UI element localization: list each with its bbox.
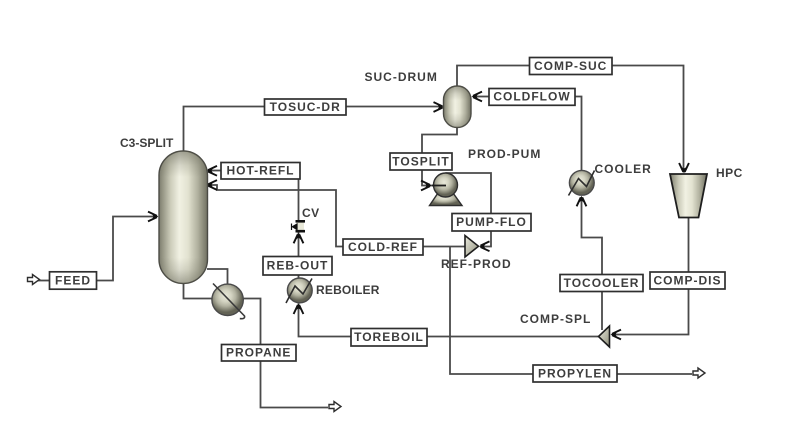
wire HOT-REFL label to column <box>211 170 221 172</box>
wire column side draw to heater top <box>207 269 228 284</box>
svg-text:COLD-REF: COLD-REF <box>348 240 418 254</box>
reboiler zigzag <box>286 279 312 304</box>
stream label box COMP-SUC <box>530 58 613 75</box>
wire reboiler inlet from TOREBOIL <box>299 304 599 337</box>
stream label box COLD-REF <box>343 239 423 255</box>
svg-text:CV: CV <box>302 206 320 220</box>
compressor HPC <box>670 174 707 218</box>
cooler COOLER <box>569 170 594 195</box>
valve CV body <box>297 223 305 231</box>
svg-text:FEED: FEED <box>55 273 91 287</box>
wire valve outlet through COLD-REF to column reflux <box>210 185 465 247</box>
wire pump outlet to PUMP-FLO to valve REF-PROD <box>446 173 492 247</box>
valve CV bottom bar <box>296 230 306 233</box>
svg-text:SUC-DRUM: SUC-DRUM <box>365 70 438 84</box>
heater diagonal arrow <box>213 284 245 319</box>
svg-text:TOSPLIT: TOSPLIT <box>392 154 449 168</box>
wire cooler outlet to COLDFLOW to drum <box>575 97 582 173</box>
svg-text:PROD-PUM: PROD-PUM <box>468 147 541 161</box>
stream label box TOREBOIL <box>351 329 427 347</box>
arrowhead into column HOT-REFL <box>207 166 218 176</box>
wire splitter top to TOCOOLER to cooler <box>582 199 603 330</box>
wire drum top to COMP-SUC to HPC <box>457 66 684 171</box>
svg-text:TOREBOIL: TOREBOIL <box>354 330 424 344</box>
svg-text:REB-OUT: REB-OUT <box>267 259 329 273</box>
valve REF-PROD <box>465 236 479 258</box>
stream label box FEED <box>50 272 97 289</box>
wire column overhead to TOSUC-DR to drum <box>184 107 441 153</box>
stream label box PROPYLEN <box>533 365 617 382</box>
stream label box REB-OUT <box>263 257 332 276</box>
svg-text:COMP-DIS: COMP-DIS <box>654 273 722 287</box>
stream label box TOCOOLER <box>560 275 643 292</box>
PROPANE outlet open arrow <box>329 402 341 412</box>
stream label box PUMP-FLO <box>452 214 531 232</box>
wire FEED inlet to FEED label <box>38 280 50 282</box>
svg-text:C3-SPLIT: C3-SPLIT <box>120 136 174 150</box>
wire drum bottom to TOSPLIT to pump <box>422 128 457 186</box>
svg-text:COLDFLOW: COLDFLOW <box>493 90 570 104</box>
valve CV left actuator <box>292 224 298 231</box>
wire FEED label to column feed <box>97 217 156 281</box>
arrowhead feed into column <box>148 212 159 222</box>
column C3-SPLIT <box>159 151 208 284</box>
stream label box TOSPLIT <box>390 153 452 170</box>
svg-text:TOSUC-DR: TOSUC-DR <box>270 100 341 114</box>
arrowhead up into CV valve <box>294 233 304 244</box>
stream label box TOSUC-DR <box>265 99 347 115</box>
wire junction to PROPYLEN outlet <box>450 247 692 375</box>
arrowhead into HPC top <box>679 163 689 174</box>
svg-text:PROPANE: PROPANE <box>226 346 291 360</box>
arrowhead into valve REF-PROD <box>479 241 490 251</box>
stream label box COMP-DIS <box>650 272 725 289</box>
valve CV top bar <box>296 220 306 223</box>
svg-text:REBOILER: REBOILER <box>316 283 380 297</box>
arrowhead up into cooler <box>577 196 587 207</box>
svg-text:COMP-SPL: COMP-SPL <box>520 312 591 326</box>
stream label box HOT-REFL <box>221 163 300 180</box>
svg-text:COMP-SUC: COMP-SUC <box>534 59 607 73</box>
arrowhead into drum left <box>434 102 445 112</box>
svg-text:PUMP-FLO: PUMP-FLO <box>456 215 527 229</box>
splitter COMP-SPL <box>599 326 610 347</box>
wire CV valve to REB-OUT <box>298 233 300 257</box>
pump inlet line over circle <box>432 185 446 187</box>
svg-text:REF-PROD: REF-PROD <box>441 257 512 271</box>
drum SUC-DRUM <box>444 86 472 128</box>
wire column bottoms to heater to PROPANE outlet <box>184 283 329 408</box>
wire HOT-REFL to CV valve <box>298 171 300 221</box>
reboiler REBOILER <box>287 278 312 303</box>
arrowhead up into reboiler <box>294 304 304 315</box>
arrowhead into drum right (COLDFLOW) <box>472 92 483 102</box>
PROPYLEN outlet open arrow <box>693 368 705 378</box>
wire REB-OUT to reboiler <box>298 275 300 279</box>
pump PROD-PUM circle <box>434 173 458 197</box>
arrowhead into pump <box>421 181 432 191</box>
stream label box PROPANE <box>222 345 297 362</box>
arrowhead into splitter right <box>611 330 622 340</box>
stream label box COLDFLOW <box>489 89 575 106</box>
heater (bottoms cooler) <box>212 284 243 315</box>
arrowhead into column cold reflux <box>207 180 218 190</box>
feed inlet open arrow <box>28 275 40 285</box>
svg-text:HPC: HPC <box>716 166 743 180</box>
svg-text:PROPYLEN: PROPYLEN <box>538 366 612 380</box>
pump PROD-PUM base <box>430 193 463 206</box>
svg-text:COOLER: COOLER <box>595 162 652 176</box>
wire HPC discharge through COMP-DIS to splitter <box>614 218 689 335</box>
svg-text:TOCOOLER: TOCOOLER <box>564 276 640 290</box>
svg-text:HOT-REFL: HOT-REFL <box>227 164 295 178</box>
cooler zigzag <box>569 171 595 196</box>
